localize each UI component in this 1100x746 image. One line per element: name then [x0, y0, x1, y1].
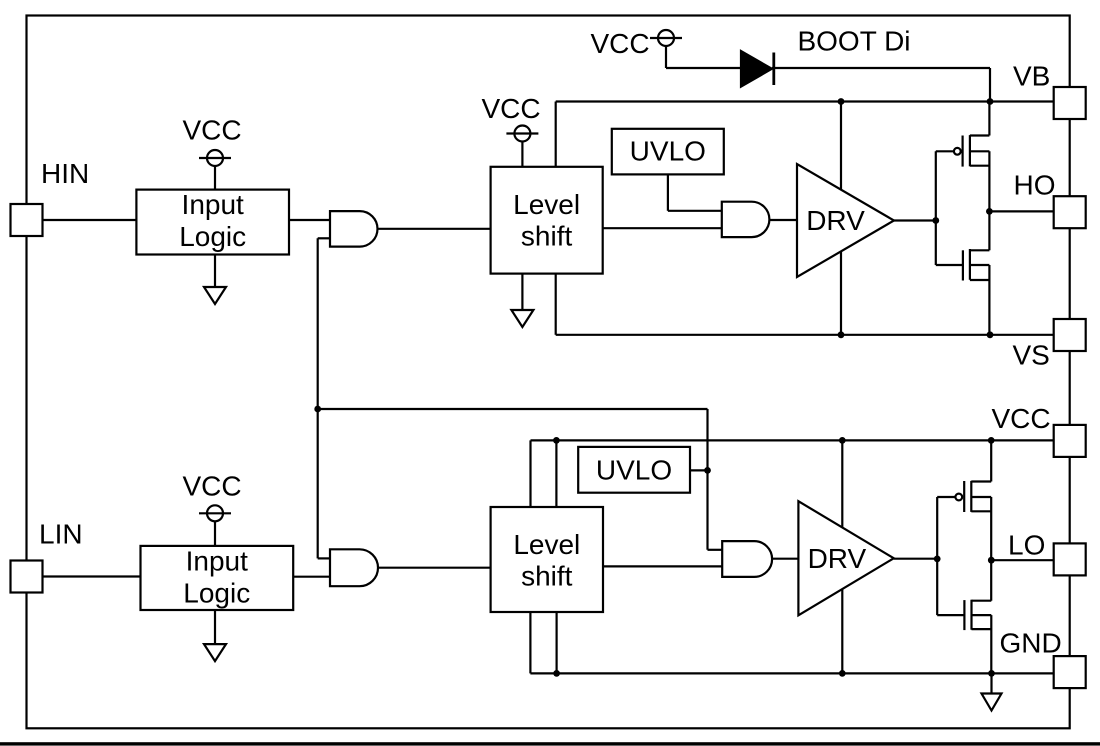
svg-text:HO: HO [1014, 170, 1056, 201]
svg-text:LO: LO [1008, 530, 1045, 561]
svg-text:LIN: LIN [39, 519, 83, 550]
svg-text:DRV: DRV [808, 543, 867, 574]
svg-text:Logic: Logic [183, 577, 250, 608]
svg-text:Level: Level [513, 189, 580, 220]
svg-text:Level: Level [513, 529, 580, 560]
svg-text:HIN: HIN [41, 158, 89, 189]
svg-text:VB: VB [1013, 61, 1050, 92]
svg-text:BOOT Di: BOOT Di [797, 26, 910, 57]
svg-text:Input: Input [182, 189, 244, 220]
svg-text:GND: GND [1000, 628, 1062, 659]
svg-text:Input: Input [186, 545, 248, 576]
svg-text:VCC: VCC [992, 403, 1051, 434]
svg-text:VCC: VCC [182, 470, 241, 501]
svg-text:UVLO: UVLO [596, 455, 672, 486]
svg-text:Logic: Logic [179, 221, 246, 252]
svg-text:VCC: VCC [481, 93, 540, 124]
svg-text:DRV: DRV [806, 205, 865, 236]
svg-text:VCC: VCC [182, 114, 241, 145]
svg-text:VCC: VCC [590, 28, 649, 59]
svg-text:VS: VS [1013, 340, 1050, 371]
svg-text:shift: shift [521, 560, 573, 591]
svg-text:shift: shift [521, 220, 573, 251]
svg-text:UVLO: UVLO [630, 136, 706, 167]
